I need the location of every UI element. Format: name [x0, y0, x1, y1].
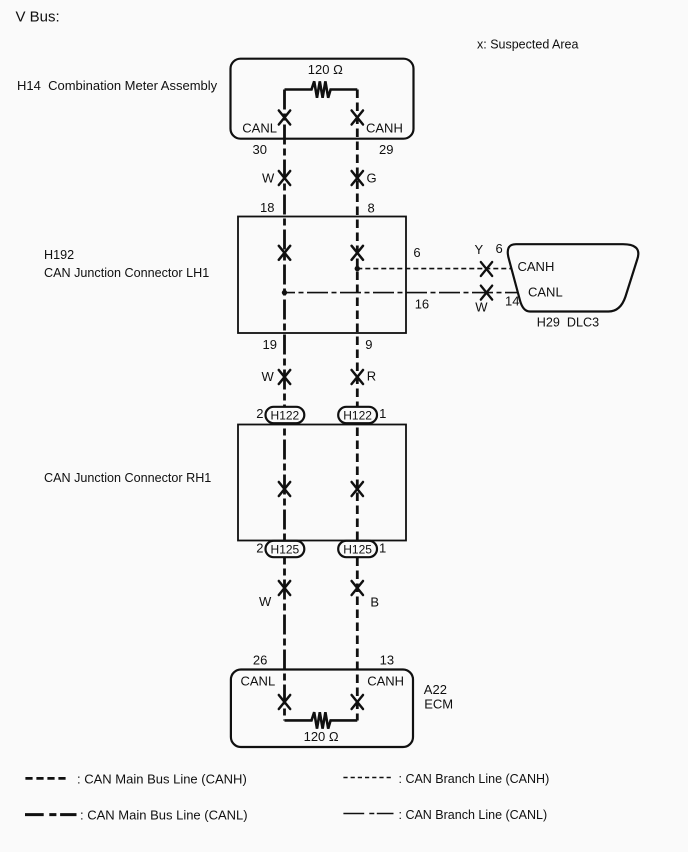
svg-text:CANL: CANL — [528, 285, 563, 300]
legend: CAN Branch Line (CANL) sample — [343, 813, 393, 815]
svg-text:8: 8 — [368, 201, 375, 216]
resistor R-meter 120ohm — [285, 81, 358, 98]
svg-text:14: 14 — [505, 294, 519, 309]
svg-text:: CAN Branch Line (CANL): : CAN Branch Line (CANL) — [399, 808, 548, 822]
connector H122 (right) — [338, 407, 377, 423]
X mark wire R — [352, 370, 363, 384]
svg-text:H192: H192 — [44, 248, 74, 262]
svg-text:CANH: CANH — [518, 259, 555, 274]
svg-text:H125: H125 — [271, 542, 300, 556]
X mark ECM CANH — [352, 695, 363, 709]
svg-text:: CAN Main Bus Line (CANH): : CAN Main Bus Line (CANH) — [77, 772, 247, 787]
svg-text:CANH: CANH — [366, 121, 403, 136]
X mark RH1 CANL — [279, 482, 290, 496]
svg-text:W: W — [475, 300, 488, 315]
svg-text:W: W — [259, 594, 272, 609]
svg-text:CANH: CANH — [367, 674, 404, 689]
svg-text:W: W — [262, 369, 275, 384]
legend: CAN Main Bus Line (CANH) sample — [25, 777, 66, 780]
svg-text:V Bus:: V Bus: — [16, 8, 60, 25]
svg-text:CAN Junction Connector LH1: CAN Junction Connector LH1 — [44, 266, 209, 280]
svg-text:6: 6 — [413, 245, 420, 260]
connector H125 (left) — [266, 541, 305, 557]
svg-text:18: 18 — [260, 200, 274, 215]
svg-text:H14 Combination Meter Assembl: H14 Combination Meter Assembly — [17, 78, 218, 93]
X mark H192 CANH — [352, 246, 363, 260]
svg-text:29: 29 — [379, 142, 393, 157]
X mark CANH branch — [481, 262, 492, 276]
X mark H192 CANL — [279, 246, 290, 260]
svg-text:9: 9 — [365, 337, 372, 352]
svg-text:30: 30 — [253, 142, 267, 157]
svg-text:120 Ω: 120 Ω — [308, 62, 343, 77]
svg-text:6: 6 — [496, 241, 503, 256]
X mark wire W (mid) — [279, 370, 290, 384]
svg-text:CANL: CANL — [242, 121, 277, 136]
svg-text:13: 13 — [380, 653, 394, 668]
svg-text:26: 26 — [253, 653, 267, 668]
ECM A22 box — [231, 670, 413, 748]
H192 CAN junction connector LH1 box — [238, 217, 406, 334]
wire CAN branch line CANL (to DLC3 pin 14) — [285, 292, 519, 294]
svg-text:2: 2 — [256, 406, 263, 421]
svg-text:R: R — [367, 369, 376, 384]
svg-text:2: 2 — [256, 541, 263, 556]
svg-text:H125: H125 — [343, 542, 372, 556]
X mark meter CANH — [352, 111, 363, 125]
svg-text:CANL: CANL — [241, 674, 276, 689]
svg-text:1: 1 — [379, 541, 386, 556]
svg-text:CAN Junction Connector RH1: CAN Junction Connector RH1 — [44, 471, 211, 485]
connector H122 (left) — [266, 407, 305, 423]
svg-text:: CAN Main Bus Line (CANL): : CAN Main Bus Line (CANL) — [80, 808, 248, 823]
svg-text:1: 1 — [379, 406, 386, 421]
node junction dot CANH branch — [355, 266, 360, 271]
connector H125 (right) — [338, 541, 377, 557]
svg-text:A22: A22 — [424, 682, 447, 697]
node junction dot CANL branch — [282, 290, 287, 295]
suspected-area X marks on main bus lines — [279, 111, 363, 710]
svg-text:16: 16 — [415, 296, 429, 311]
DLC3 H29 connector body — [508, 244, 639, 311]
svg-text:H122: H122 — [271, 408, 300, 422]
svg-text:19: 19 — [263, 337, 277, 352]
wire CAN branch line CANH (to DLC3 pin 6) — [357, 268, 511, 270]
X mark wire W (bottom) — [279, 581, 290, 595]
svg-text:H122: H122 — [343, 408, 372, 422]
X mark CANL branch — [481, 286, 492, 300]
svg-text:: CAN Branch Line (CANH): : CAN Branch Line (CANH) — [399, 772, 550, 786]
svg-text:120 Ω: 120 Ω — [304, 729, 339, 744]
legend: CAN Main Bus Line (CANL) sample — [25, 813, 77, 816]
combination meter assembly H14 box — [231, 59, 414, 139]
svg-text:x: Suspected Area: x: Suspected Area — [477, 38, 579, 52]
legend: CAN Branch Line (CANH) sample — [343, 777, 393, 779]
svg-text:H29 DLC3: H29 DLC3 — [537, 316, 599, 330]
X mark ECM CANL — [279, 695, 290, 709]
svg-text:Y: Y — [475, 242, 484, 257]
svg-text:G: G — [367, 171, 377, 186]
X mark RH1 CANH — [352, 482, 363, 496]
svg-text:W: W — [262, 171, 275, 186]
resistor R-ecm 120ohm — [285, 712, 358, 729]
X mark meter CANL — [279, 111, 290, 125]
X mark wire G (top) — [352, 171, 363, 185]
CAN junction connector RH1 box — [238, 425, 406, 541]
svg-text:ECM: ECM — [424, 697, 453, 712]
wire CANH main bus line (right, x=357.3) — [356, 90, 359, 721]
X mark wire W (top) — [279, 171, 290, 185]
X mark wire B — [352, 581, 363, 595]
wire CANL main bus line (left, x=284.5) — [283, 90, 286, 721]
svg-text:B: B — [370, 595, 379, 610]
